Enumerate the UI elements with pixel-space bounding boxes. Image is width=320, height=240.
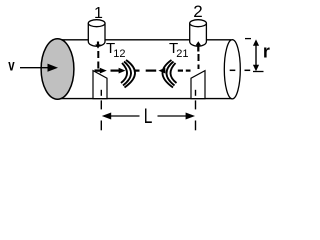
transducer wedge T12 [93,71,107,99]
acoustic path arrow right (near wedge 1) [95,69,101,71]
L extension dashed line left [100,90,102,96]
pipe right end ellipse [224,40,240,99]
path arrow left into waves [158,68,165,74]
transducer port 2 cylinder [190,23,207,46]
pipe bottom wall [57,98,233,100]
pipe left end cap (gray) [41,39,74,99]
port 2 up arrow [196,41,201,45]
L extension dashed line right [195,90,197,96]
path dash [146,69,157,71]
flow arrow v [20,67,49,69]
path dash [134,69,140,71]
transducer wedge T21 [191,71,205,99]
path dash and arrow right into waves [111,69,120,71]
radius arrow r [255,44,257,67]
svg-text:1: 1 [94,5,103,22]
port 2 dashed drop line [198,54,200,69]
L dimension right arrow [158,115,188,117]
path dash at wedge 2 [186,69,191,71]
L dimension left arrow [102,113,111,120]
path dash [178,69,183,71]
svg-text:21: 21 [176,48,188,60]
center line dashes at right end [230,69,236,71]
sound waves right-going ))) [121,63,127,83]
svg-text:v: v [8,57,15,74]
transducer port 1 cylinder [88,23,105,46]
port 1 dashed drop line [97,51,99,69]
port 1 down arrow [97,42,99,46]
svg-text:r: r [263,41,270,61]
top reference dash for r [245,38,251,40]
svg-text:2: 2 [193,2,202,21]
svg-text:12: 12 [113,48,125,60]
pipe top wall [57,39,231,41]
svg-text:L: L [144,104,153,128]
sound waves left-going ((( [170,63,176,83]
